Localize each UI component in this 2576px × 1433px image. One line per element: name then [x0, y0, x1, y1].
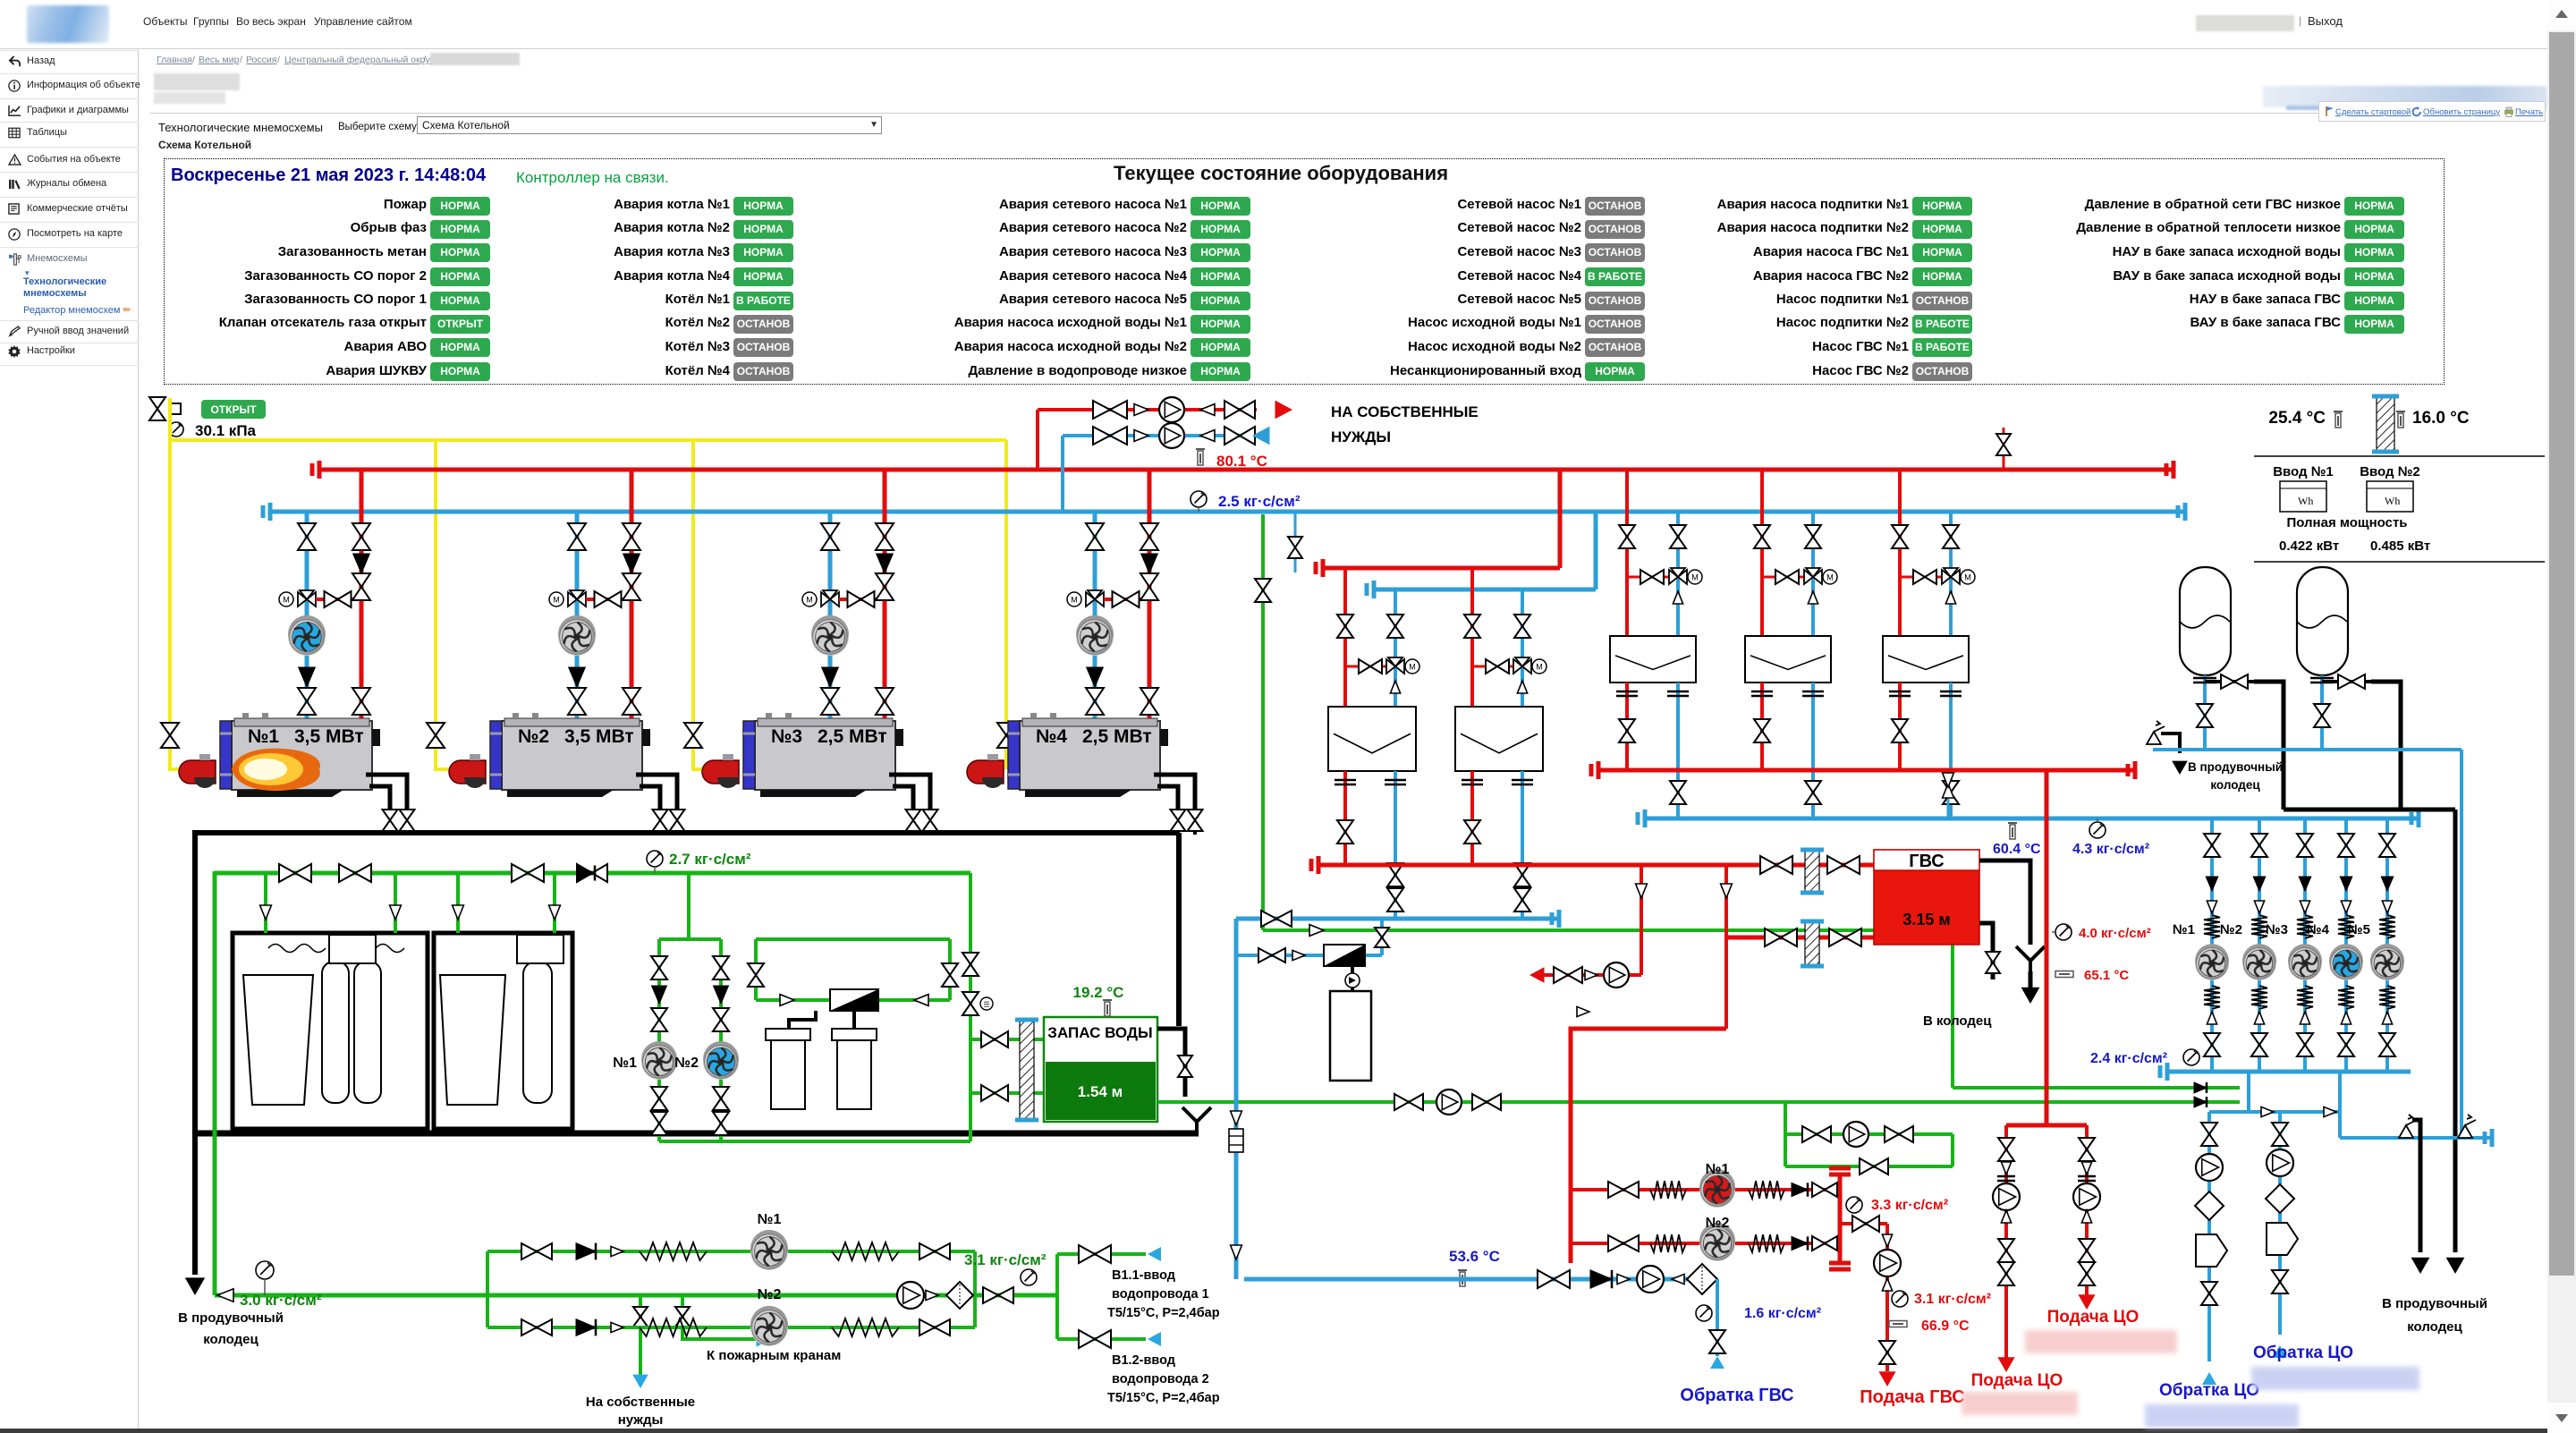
makeup pump №1 (on tank outlet line): [1394, 1094, 1423, 1110]
boiler 3 burner: [743, 721, 755, 789]
svg-text:Обратка ЦО: Обратка ЦО: [2159, 1381, 2259, 1400]
boiler 2 body: [502, 721, 642, 790]
tank outlet line lower: [970, 1091, 1044, 1095]
heating HX 3 outlet blue: [1949, 683, 1953, 818]
HW tank drain: [1979, 923, 1993, 979]
HW tank bottom hatched HX: [1805, 921, 1819, 966]
boiler 4 drain pipes: [1154, 775, 1195, 810]
исходной воды pump №1 column: [657, 939, 661, 1141]
softener bottles 1: [322, 962, 349, 1103]
svg-text:2,5 МВт: 2,5 МВт: [1082, 726, 1152, 747]
svg-text:№2: №2: [758, 1287, 782, 1302]
tank inlet line upper: [970, 1038, 1044, 1041]
deaerator feed riser (green): [1261, 514, 1265, 930]
svg-text:№4: №4: [2307, 922, 2330, 937]
heating HX 1 outlet red: [1625, 683, 1629, 770]
svg-text:2.5 кг·с/см²: 2.5 кг·с/см²: [1218, 493, 1301, 510]
vessel 1 outlet: [2203, 675, 2207, 750]
expansion vessel 2: [2297, 567, 2348, 675]
vessel 1 drain valve (black): [2205, 680, 2254, 683]
svg-text:16.0 °C: 16.0 °C: [2412, 409, 2470, 428]
bottom drain collector (black): [195, 1131, 1199, 1137]
feed drops from HW line: [1640, 865, 1643, 975]
softener bin 2: [440, 975, 505, 1105]
HW heat exchanger 2: [1455, 707, 1543, 771]
svg-text:☰: ☰: [983, 1001, 989, 1009]
own needs drop: [639, 1295, 642, 1378]
gas valve state badge ОТКРЫТ: [201, 400, 266, 419]
svg-text:3,5 МВт: 3,5 МВт: [294, 726, 364, 747]
svg-text:В продувочный: В продувочный: [2382, 1296, 2487, 1311]
HW pump №1: [1571, 1188, 1840, 1191]
HW recirculation pump line: [1536, 973, 1641, 977]
heating heat exchanger 3 supply: [1898, 470, 1902, 636]
svg-text:66.9 °C: 66.9 °C: [1921, 1319, 1970, 1334]
boiler 1 body: [232, 721, 372, 790]
svg-text:4.0 кг·с/см²: 4.0 кг·с/см²: [2079, 926, 2151, 941]
network pump №4 column: [2344, 818, 2348, 1072]
softener pump return run: [659, 1140, 970, 1143]
svg-text:0.422 кВт: 0.422 кВт: [2279, 538, 2339, 554]
softener bin 1: [243, 975, 313, 1105]
svg-text:№2: №2: [2220, 922, 2242, 937]
city water main (green): [215, 1293, 1057, 1298]
svg-text:25.4 °C: 25.4 °C: [2268, 409, 2326, 428]
CO supply drop (red): [2045, 770, 2049, 1125]
boiler 1 blue return riser: [305, 512, 309, 721]
water reserve tank ЗАПАС ВОДЫ: [1044, 1017, 1157, 1122]
svg-text:К пожарным кранам: К пожарным кранам: [707, 1348, 841, 1363]
boiler 3 three-way valve with gauge: [821, 590, 839, 606]
return temperature 60.4 °C: [2008, 822, 2017, 824]
svg-text:Полная мощность: Полная мощность: [2286, 515, 2407, 530]
reserve tank outlet to feed pumps: [1157, 1100, 2213, 1104]
HW return collector (blue): [1236, 917, 1561, 921]
svg-text:M: M: [806, 596, 813, 605]
temperature 65.1 °C: [2055, 971, 2073, 978]
gas shutoff valves on drops: [161, 723, 179, 748]
gas burner stubs: [168, 767, 199, 771]
gas pressure gauge 30.1 кПа: [169, 422, 183, 437]
drain to blowdown well: [192, 1133, 198, 1275]
svg-text:НУЖДЫ: НУЖДЫ: [1331, 428, 1391, 445]
heating HX 1 outlet blue: [1676, 683, 1680, 818]
HW heat exchanger 1 supply: [1343, 568, 1347, 707]
booster pump №1 line: [487, 1250, 975, 1253]
meters block: [2254, 455, 2545, 457]
svg-text:M: M: [1964, 573, 1971, 582]
tank overflow (black): [1157, 1029, 1185, 1097]
heating HX 2 outlet blue: [1811, 683, 1815, 818]
gas drop to boiler 3: [691, 440, 695, 769]
network pump №3 column: [2303, 818, 2307, 1072]
check valve on treatment line: [577, 864, 607, 882]
softener bottle 2: [523, 962, 552, 1103]
brine tank 2: [832, 1029, 877, 1040]
feed to water reserve tank: [969, 873, 972, 1141]
svg-text:Подача ГВС: Подача ГВС: [1860, 1387, 1964, 1407]
исходной воды pump №2 column: [719, 939, 723, 1141]
svg-text:3.15 м: 3.15 м: [1902, 911, 1950, 928]
inlet water heat exchanger (hatched): [2377, 396, 2394, 452]
svg-text:Wh: Wh: [2298, 495, 2313, 507]
svg-text:0.485 кВт: 0.485 кВт: [2370, 538, 2430, 554]
treatment unit frame: [233, 933, 428, 1129]
HW supply outlet: [1840, 1222, 1887, 1225]
HW return line to meters: [1244, 1277, 1717, 1282]
boiler 1 drain pipes: [366, 775, 407, 810]
svg-text:2.7 кг·с/см²: 2.7 кг·с/см²: [669, 851, 751, 868]
mid supply header (red): [1321, 566, 1560, 571]
CO return column 1: [2207, 1112, 2211, 1361]
pressure 3.1 кг·с/см²: [1021, 1269, 1037, 1285]
pressure 2.7 кг·с/см²: [647, 851, 663, 867]
heating heat exchanger 3 return: [1949, 512, 1953, 636]
HW tank feed line (red): [1317, 863, 1874, 868]
pressure 1.6 кг·с/см²: [1696, 1305, 1712, 1321]
brine tank pipes (black): [789, 1011, 816, 1029]
makeup check valves into return: [2194, 1082, 2207, 1093]
boiler 1 flame: [232, 749, 320, 791]
svg-text:В1.2-ввод: В1.2-ввод: [1112, 1353, 1175, 1368]
svg-text:№4: №4: [1036, 726, 1067, 747]
svg-text:ЗАПАС ВОДЫ: ЗАПАС ВОДЫ: [1047, 1024, 1152, 1041]
heating heat exchanger 2 return: [1811, 512, 1815, 636]
own-needs return arrow: [1252, 427, 1270, 445]
gas drop to boiler 4: [1004, 440, 1008, 769]
boiler 2 red supply riser: [630, 470, 634, 721]
CO supply column 2: [2085, 1125, 2089, 1295]
own-needs supply arrow: [1275, 401, 1293, 420]
svg-text:колодец: колодец: [203, 1332, 258, 1347]
booster pump №2 line: [487, 1326, 975, 1329]
svg-text:53.6 °C: 53.6 °C: [1449, 1248, 1500, 1265]
pressure 3.3 кг·с/см²: [1846, 1197, 1862, 1213]
svg-text:4.3 кг·с/см²: 4.3 кг·с/см²: [2072, 842, 2149, 857]
boiler 1 three-way valve with gauge: [298, 590, 316, 606]
heating HX 2 outlet red: [1760, 683, 1764, 770]
own-needs supply line (red): [1038, 408, 1257, 411]
HW HX 1 outlet red: [1343, 771, 1347, 865]
softener water feed line (green): [215, 871, 970, 876]
CO return collector (blue): [2247, 1072, 2250, 1112]
relief on return header: [1947, 799, 1950, 818]
network return header (blue): [1643, 817, 2420, 821]
network pump №1 column: [2210, 818, 2214, 1072]
svg-text:№1: №1: [2173, 922, 2195, 937]
water inlet В1.1: [1055, 1254, 1059, 1339]
heating heat exchanger 1: [1610, 636, 1696, 683]
svg-text:нужды: нужды: [618, 1412, 664, 1428]
heating heat exchanger 2 supply: [1760, 470, 1764, 636]
softener feed left riser: [213, 871, 217, 1295]
svg-text:№2: №2: [518, 726, 549, 747]
svg-text:№1: №1: [248, 726, 279, 747]
HW pumps discharge manifold: [1838, 1174, 1843, 1263]
svg-text:3.0 кг·с/см²: 3.0 кг·с/см²: [240, 1292, 322, 1309]
svg-text:В продувочный: В продувочный: [178, 1310, 284, 1326]
gas drop to boiler 2: [434, 440, 437, 769]
boiler 1 red supply riser: [360, 470, 364, 721]
heating heat exchanger 2: [1745, 636, 1831, 683]
svg-text:M: M: [1409, 663, 1416, 672]
softener control 1: [329, 935, 376, 963]
pressure 4.0 кг·с/см²: [2055, 924, 2072, 940]
makeup pump №2 line: [1784, 1102, 1787, 1166]
svg-text:30.1 кПа: 30.1 кПа: [195, 422, 257, 439]
CO return column 2: [2278, 1112, 2282, 1335]
svg-text:№5: №5: [2348, 922, 2370, 937]
feed line to makeup pumps: [1263, 928, 1953, 932]
boiler 3 red supply riser: [883, 470, 887, 721]
boiler 2 drain pipes: [636, 775, 677, 810]
HW HX 2 outlet blue: [1521, 771, 1524, 919]
vessel blue collector: [2153, 748, 2462, 751]
svg-text:В колодец: В колодец: [1923, 1013, 1992, 1029]
svg-text:№2: №2: [674, 1056, 699, 1071]
svg-text:Обратка ЦО: Обратка ЦО: [2253, 1344, 2353, 1362]
vessel drain manifold (black): [2284, 808, 2455, 812]
makeup control line (blue): [1236, 954, 1382, 957]
svg-text:Ввод №2: Ввод №2: [2360, 464, 2420, 479]
blowdown manifold right drop: [1176, 833, 1182, 1026]
boiler blowdown manifold (black): [193, 830, 1179, 835]
CO supply manifold: [2006, 1124, 2087, 1128]
svg-text:2,5 МВт: 2,5 МВт: [818, 726, 887, 747]
svg-text:НА СОБСТВЕННЫЕ: НА СОБСТВЕННЫЕ: [1331, 403, 1479, 420]
heating heat exchanger 1 return: [1676, 512, 1680, 636]
svg-text:ОТКРЫТ: ОТКРЫТ: [210, 403, 257, 416]
HW return riser (blue): [1234, 919, 1239, 1279]
gas inlet valve with position indicator: [149, 397, 165, 420]
svg-text:80.1 °C: 80.1 °C: [1216, 453, 1267, 470]
mid return header (blue): [1372, 588, 1596, 592]
svg-text:M: M: [1691, 573, 1699, 582]
pressure 3.0 кг·с/см²: [256, 1261, 274, 1279]
water inlet В1.2: [1057, 1337, 1146, 1341]
svg-text:3.1 кг·с/см²: 3.1 кг·с/см²: [1914, 1292, 1991, 1307]
expansion vessel small: [1330, 991, 1371, 1081]
return header (blue): [268, 510, 2187, 514]
blowdown left drop: [192, 830, 198, 1133]
svg-text:Подача ЦО: Подача ЦО: [2047, 1308, 2140, 1327]
HW heat exchanger 2 return: [1521, 589, 1524, 707]
svg-text:На собственные: На собственные: [586, 1395, 695, 1410]
boiler 2 circulation pump: [558, 615, 596, 653]
gas main header (yellow): [168, 398, 172, 769]
boiler 4 body: [1020, 721, 1160, 790]
vessel 2 outlet: [2320, 675, 2324, 750]
svg-text:60.4 °C: 60.4 °C: [1993, 842, 2041, 857]
boiler 4 blue return riser: [1093, 512, 1097, 721]
boiler 3 body: [755, 721, 895, 790]
treatment risers with valves: [264, 873, 267, 933]
svg-text:№3: №3: [771, 726, 802, 747]
boiler 4 red supply riser: [1148, 470, 1152, 721]
boiler 4 three-way valve with gauge: [1086, 590, 1104, 606]
svg-text:3,5 МВт: 3,5 МВт: [564, 726, 634, 747]
svg-text:65.1 °C: 65.1 °C: [2084, 968, 2129, 983]
HW pump №2: [1571, 1242, 1840, 1245]
boiler 1 circulation pump: [288, 615, 326, 653]
softener pump branch: [687, 873, 691, 939]
vessel 2 drain valve (black): [2322, 680, 2371, 683]
svg-text:Ввод №1: Ввод №1: [2273, 464, 2334, 479]
brine unit piping (green): [756, 937, 950, 941]
svg-text:№3: №3: [2266, 922, 2288, 937]
svg-text:3.3 кг·с/см²: 3.3 кг·с/см²: [1871, 1198, 1948, 1213]
svg-text:1.6 кг·с/см²: 1.6 кг·с/см²: [1744, 1306, 1821, 1321]
svg-text:2.4 кг·с/см²: 2.4 кг·с/см²: [2090, 1051, 2167, 1066]
brine tank 1: [766, 1029, 810, 1040]
svg-text:водопровода 1: водопровода 1: [1112, 1287, 1209, 1302]
supply header (red): [318, 468, 2175, 472]
svg-text:ГВС: ГВС: [1909, 852, 1944, 871]
svg-text:1.54 м: 1.54 м: [1078, 1083, 1123, 1100]
svg-text:Wh: Wh: [2385, 495, 2400, 507]
HW supply route to pumps: [1571, 1029, 1726, 1263]
relief valves to blowdown: [2340, 1136, 2494, 1140]
HW tank overflow to well (black): [1979, 861, 2030, 945]
svg-text:Обратка ГВС: Обратка ГВС: [1680, 1386, 1793, 1405]
HW heat exchanger 1 return: [1394, 589, 1397, 707]
svg-text:M: M: [1826, 573, 1834, 582]
heating HX 3 outlet red: [1898, 683, 1902, 770]
makeup bypass: [1785, 1165, 1953, 1168]
heating heat exchanger 3: [1883, 636, 1969, 683]
boiler 1 burner: [220, 721, 232, 789]
vent stub on supply header: [2003, 428, 2005, 470]
return pressure 2.5 кг·с/см²: [1191, 491, 1207, 507]
boiler 2 blue return riser: [575, 512, 580, 721]
safety valve on vessel line: [2147, 721, 2165, 744]
HW tank ГВС: [1874, 850, 1979, 945]
filter and meter section: [897, 1282, 924, 1309]
svg-text:M: M: [553, 596, 560, 605]
svg-text:водопровода 2: водопровода 2: [1112, 1372, 1209, 1386]
svg-text:19.2 °C: 19.2 °C: [1073, 984, 1124, 1001]
drain stub on return header: [1294, 512, 1297, 572]
CO supply column 1: [2004, 1125, 2008, 1358]
suction pressure 2.4 кг·с/см²: [2183, 1049, 2199, 1065]
svg-text:В1.1-ввод: В1.1-ввод: [1112, 1268, 1175, 1283]
network pump №2 column: [2258, 818, 2261, 1072]
HW tank bottom line (red): [1726, 936, 1874, 940]
svg-text:M: M: [1536, 663, 1543, 672]
HW HX 1 outlet blue: [1394, 771, 1397, 919]
HW HX 2 outlet red: [1470, 771, 1474, 865]
svg-text:№1: №1: [758, 1212, 782, 1227]
svg-text:M: M: [283, 596, 290, 605]
boiler 4 circulation pump: [1076, 615, 1114, 653]
fire line drop: [682, 1295, 758, 1339]
boiler 2 three-way valve with gauge: [568, 590, 586, 606]
svg-text:№2: №2: [1706, 1216, 1730, 1231]
svg-text:Т5/15°С, Р=2,4бар: Т5/15°С, Р=2,4бар: [1107, 1306, 1220, 1320]
svg-text:колодец: колодец: [2210, 778, 2260, 792]
svg-text:Т5/15°С, Р=2,4бар: Т5/15°С, Р=2,4бар: [1107, 1391, 1220, 1405]
HW heat exchanger 1: [1328, 707, 1416, 771]
HW heat exchanger 2 supply: [1470, 568, 1474, 707]
svg-text:№1: №1: [1706, 1162, 1730, 1177]
return pressure 4.3 кг·с/см²: [2089, 822, 2106, 838]
svg-text:№1: №1: [613, 1056, 637, 1071]
svg-text:M: M: [1071, 596, 1078, 605]
boiler 3 blue return riser: [828, 512, 833, 721]
network pump №5 column: [2385, 818, 2389, 1072]
supply temperature 80.1 °C: [1196, 448, 1205, 450]
boiler 2 burner: [490, 721, 502, 789]
svg-text:Подача ЦО: Подача ЦО: [1971, 1371, 2063, 1390]
control valve with actuator: [1324, 945, 1365, 966]
softener control 2: [517, 935, 563, 963]
expansion vessel 1: [2180, 567, 2231, 675]
reserve tank heat exchanger (hatched): [1020, 1020, 1034, 1120]
boiler 3 drain pipes: [889, 775, 930, 810]
svg-text:колодец: колодец: [2407, 1319, 2462, 1335]
pump suction header (blue): [2165, 1070, 2411, 1074]
own-needs return line (blue): [1063, 434, 1263, 437]
svg-text:3.1 кг·с/см²: 3.1 кг·с/см²: [964, 1251, 1046, 1268]
svg-text:В продувочный: В продувочный: [2188, 760, 2283, 774]
heating secondary supply header (red): [1597, 768, 2137, 773]
boiler 4 burner: [1008, 721, 1020, 789]
heating heat exchanger 1 supply: [1625, 470, 1629, 636]
HW feed heat exchanger (hatched): [1805, 850, 1819, 893]
boiler 3 circulation pump: [811, 615, 849, 653]
brine control valve: [830, 989, 878, 1011]
booster pump group: [486, 1251, 489, 1327]
